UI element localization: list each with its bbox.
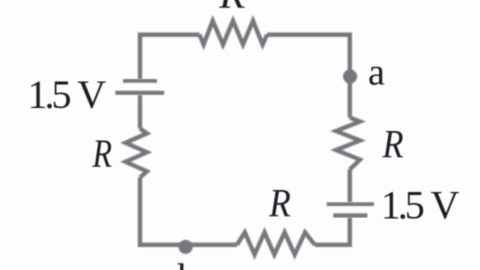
node b (junction dot) <box>179 240 193 254</box>
wire: bottom horizontal through node b + left vertical up to resistor <box>140 178 237 245</box>
wire: right vertical between resistor and battery <box>348 170 352 203</box>
wire: top-left corner (left vertical top + top horizontal to resistor) <box>140 35 200 79</box>
node a (junction dot) <box>343 70 357 84</box>
svg-text:1.5 V: 1.5 V <box>381 182 460 227</box>
resistor R right (zigzag) <box>336 118 360 170</box>
svg-text:R: R <box>268 181 290 226</box>
resistor R top (zigzag) <box>200 21 268 45</box>
resistor R left (zigzag) <box>126 129 148 178</box>
svg-text:a: a <box>368 51 385 93</box>
wire: right vertical below battery + bottom horizontal to resistor <box>315 218 350 245</box>
svg-text:R: R <box>382 122 404 167</box>
svg-text:R: R <box>92 131 112 176</box>
svg-text:R: R <box>218 0 245 17</box>
wire: left vertical between battery and resistor <box>138 95 142 129</box>
svg-text:1.5 V: 1.5 V <box>28 72 107 117</box>
battery 1.5 V left (short top plate + long bottom plate) <box>115 81 164 93</box>
resistor R bottom (zigzag) <box>237 232 315 254</box>
svg-text:b: b <box>178 255 198 270</box>
wire: top-right corner (top horizontal + right vertical down through node a to resistor) <box>267 35 350 118</box>
battery 1.5 V right (long top plate + short bottom plate) <box>327 204 374 215</box>
